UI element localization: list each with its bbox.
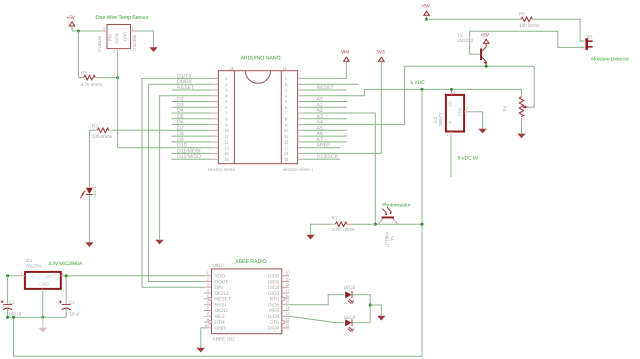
svg-text:T2: T2	[457, 33, 463, 39]
svg-text:8: 8	[225, 117, 228, 122]
wire LED3 right side	[353, 322, 371, 324]
wire JP1 pin2 to T2 base	[470, 31, 585, 54]
svg-text:GND: GND	[215, 326, 226, 332]
svg-text:GND: GND	[39, 282, 48, 287]
svg-text:XBEE-1B1: XBEE-1B1	[213, 337, 236, 343]
pin numbers XBee left	[204, 271, 209, 328]
wire +5V to R5	[427, 18, 521, 20]
diode LED3	[344, 315, 356, 332]
ground (IC3)	[478, 129, 486, 134]
svg-text:VO: VO	[448, 100, 453, 107]
svg-text:+5V: +5V	[67, 15, 76, 21]
svg-text:14: 14	[285, 305, 290, 310]
wire D10 to temp sensor DATA	[118, 147, 211, 149]
node junction emitter	[485, 65, 488, 68]
svg-text:12: 12	[224, 140, 229, 145]
svg-text:1: 1	[285, 76, 288, 81]
wire moisture sense node (T2 emitter to R4 wiper and A4)	[405, 66, 535, 107]
diode LED2	[344, 285, 356, 304]
svg-text:+5V: +5V	[481, 33, 490, 39]
wire VO to XBee VDD 3.3V rail	[65, 275, 204, 277]
wire D0/RX to XBee DOUT	[149, 84, 211, 281]
svg-text:DIO4: DIO4	[268, 326, 280, 332]
module U2 ARDUINO NANO (headers J1 J2 HEAD15-NOSS)	[208, 55, 314, 171]
wire DIO9 diagonal to LED3	[289, 316, 344, 323]
svg-text:100 uf: 100 uf	[8, 311, 22, 317]
wire R1 right to LDR node	[351, 223, 375, 225]
wire 5V pin4 to 5 VDC rail	[303, 89, 521, 95]
net labels right of J2	[317, 85, 339, 160]
svg-text:1: 1	[132, 26, 134, 30]
wire R5 to JP1 pin1	[532, 19, 584, 41]
svg-text:100 ohms: 100 ohms	[519, 23, 540, 29]
wire D8	[171, 135, 210, 137]
pins J1 stubs left	[211, 78, 219, 159]
svg-text:HEAD15-NOSS: HEAD15-NOSS	[208, 167, 236, 172]
wire RESET right	[303, 89, 346, 91]
svg-text:5 VDC: 5 VDC	[410, 80, 425, 86]
wire +5V branch down to R3	[78, 31, 83, 78]
ground (LED1)	[85, 242, 93, 247]
svg-text:2: 2	[466, 107, 468, 111]
wire photoresistor row	[375, 223, 422, 225]
svg-text:16: 16	[285, 294, 290, 299]
resistor R1	[331, 216, 355, 234]
ground (LEDs)	[377, 316, 385, 321]
wire A3	[303, 118, 347, 120]
transistor T2 2N2222	[457, 33, 487, 66]
svg-text:9: 9	[225, 122, 228, 127]
svg-text:1: 1	[207, 271, 210, 276]
pin bubbles RTS/CTS	[282, 297, 285, 300]
svg-text:U$12: U$12	[212, 263, 223, 269]
wire 3V3 to J2 pin14	[303, 61, 381, 153]
svg-text:7: 7	[285, 111, 288, 116]
svg-text:19: 19	[285, 276, 290, 281]
svg-text:4.7k ohms: 4.7k ohms	[81, 82, 103, 88]
wire XBee GND to ground	[201, 328, 204, 348]
svg-text:3: 3	[207, 282, 210, 287]
node junction LED ground tap	[369, 304, 372, 307]
wire IC3 GND to ground	[474, 112, 483, 129]
wire DIO5 to LED2	[289, 295, 344, 305]
svg-text:13: 13	[285, 311, 290, 316]
svg-text:3: 3	[285, 88, 288, 93]
svg-text:14: 14	[224, 151, 229, 156]
wire A6	[303, 135, 347, 137]
svg-text:IC1: IC1	[25, 258, 33, 264]
wire D11/MOSI	[171, 152, 210, 154]
wire A5	[303, 129, 347, 131]
pin numbers J2	[284, 76, 289, 162]
svg-text:6: 6	[225, 105, 228, 110]
wire IC1 GND pin down	[42, 292, 44, 317]
potentiometer R4	[503, 93, 528, 122]
svg-text:15: 15	[285, 300, 290, 305]
svg-text:7: 7	[207, 305, 210, 310]
capacitor C2	[1, 276, 22, 318]
wire D1/TX to XBee DIN	[142, 78, 211, 287]
svg-text:2N2222: 2N2222	[457, 38, 474, 44]
svg-text:R3: R3	[81, 71, 87, 77]
wire LED ground tap	[370, 305, 381, 316]
svg-text:LED1: LED1	[92, 186, 97, 198]
voltage regulator IC3 7805TV	[433, 89, 474, 136]
wire +5V to sensor PIO	[72, 30, 102, 32]
ground (J1 pin 4)	[155, 240, 163, 245]
svg-text:2: 2	[225, 82, 228, 87]
svg-text:1: 1	[446, 133, 448, 137]
svg-text:XBEE RADIO: XBEE RADIO	[235, 259, 266, 265]
wire D12/MISO	[171, 158, 210, 160]
node junction VO/C1	[65, 274, 68, 277]
ground (R1)	[306, 235, 314, 240]
wire AREF	[303, 147, 340, 149]
wire A7	[303, 141, 347, 143]
svg-text:3: 3	[453, 91, 455, 95]
svg-text:3: 3	[225, 88, 228, 93]
node junction +5V/R3 branch	[77, 30, 80, 33]
voltage regulator IC1 MIC2940A 3.3V	[17, 258, 83, 293]
svg-text:10: 10	[224, 128, 229, 133]
ground (XBee)	[197, 348, 205, 353]
wire 5VDC rail into R4 top	[521, 89, 523, 92]
net labels left of J1	[177, 73, 201, 160]
svg-text:VI: VI	[31, 274, 35, 279]
wire VI to C2	[8, 275, 17, 277]
node junction 5VDC/photoresistor column	[421, 88, 424, 91]
node junction VI/C2	[6, 274, 9, 277]
svg-text:15: 15	[284, 157, 289, 162]
svg-text:3: 3	[103, 27, 105, 31]
wire A1	[303, 106, 347, 108]
svg-text:4: 4	[225, 93, 228, 98]
svg-text:HEAD15-NOSS-1: HEAD15-NOSS-1	[283, 167, 314, 172]
svg-text:GND: GND	[122, 32, 127, 41]
wire GND pin2 right	[303, 83, 358, 85]
svg-text:7812TV: 7812TV	[25, 263, 42, 269]
svg-text:12: 12	[284, 140, 289, 145]
svg-text:3.3V MIC2940A: 3.3V MIC2940A	[48, 261, 83, 267]
wire D7 to R2	[113, 129, 211, 131]
svg-text:2: 2	[45, 289, 47, 293]
wire A0	[303, 101, 347, 103]
svg-text:12: 12	[285, 317, 290, 322]
node junction C2/ground row	[6, 316, 9, 319]
ground (IC1 faded)	[39, 317, 47, 332]
svg-text:20: 20	[285, 271, 290, 276]
svg-text:13: 13	[224, 145, 229, 150]
svg-text:Photoresistor: Photoresistor	[382, 202, 411, 208]
ground (sensor)	[149, 47, 157, 52]
wire R2 left to LED1	[89, 130, 97, 187]
wire DATA vertical	[117, 52, 119, 147]
svg-text:D18B20: D18B20	[97, 35, 102, 52]
svg-text:11: 11	[284, 134, 289, 139]
svg-text:One Wire Temp Sensor: One Wire Temp Sensor	[96, 15, 149, 21]
wire ground row C2/GND/C1	[8, 316, 67, 318]
svg-text:3V3: 3V3	[376, 49, 385, 55]
pin labels XBee left	[215, 274, 231, 332]
resistor R2	[92, 123, 113, 140]
svg-text:11: 11	[285, 323, 290, 328]
svg-text:9 VDC IN: 9 VDC IN	[457, 156, 478, 162]
svg-text:+5V: +5V	[422, 4, 431, 10]
svg-text:2: 2	[207, 276, 210, 281]
svg-text:LPT80A: LPT80A	[385, 232, 390, 248]
svg-text:R2: R2	[92, 123, 98, 129]
wire D13/SCK	[303, 158, 340, 160]
radio module U$12 XBEE-1B1	[212, 259, 282, 342]
svg-text:6: 6	[285, 105, 288, 110]
svg-text:R4: R4	[503, 105, 508, 111]
pin bubbles RESET/DTR	[209, 297, 212, 300]
node junction IC1 GND	[41, 316, 44, 319]
+5V supply symbol (top left)	[67, 15, 76, 31]
svg-text:ARDUINO NANO: ARDUINO NANO	[241, 55, 281, 61]
svg-text:4: 4	[285, 93, 288, 98]
svg-text:GND: GND	[457, 107, 462, 116]
wire R1 left to ground	[311, 224, 332, 234]
svg-text:VIN: VIN	[341, 49, 349, 55]
wire R3 to DATA line	[101, 77, 118, 79]
wire D5	[171, 118, 210, 120]
node junction LDR right	[421, 223, 424, 226]
svg-text:J1: J1	[229, 66, 234, 71]
svg-text:7805TV: 7805TV	[438, 112, 443, 127]
node junction +5V/R5	[425, 18, 428, 21]
supply VIN symbol	[341, 49, 349, 61]
svg-text:17: 17	[285, 288, 290, 293]
wire sensor GND to ground	[137, 31, 154, 47]
svg-text:15: 15	[224, 157, 229, 162]
svg-text:13: 13	[284, 145, 289, 150]
node junction rail riser	[12, 316, 15, 319]
node junction R3/DATA	[116, 76, 119, 79]
wire R4 bottom to ground	[521, 121, 523, 133]
wire D3	[171, 106, 210, 108]
svg-text:2: 2	[285, 82, 288, 87]
svg-text:5: 5	[285, 99, 288, 104]
pin numbers XBee right	[285, 271, 290, 328]
svg-text:VI: VI	[448, 121, 453, 125]
connector JP1 moisture probe	[581, 35, 629, 63]
svg-text:Moisture Detector: Moisture Detector	[591, 57, 629, 63]
svg-text:9: 9	[285, 122, 288, 127]
pins XBee right stubs	[282, 276, 289, 328]
supply 3V3 symbol	[376, 49, 385, 61]
resistor R3	[81, 71, 103, 88]
wire D4	[171, 112, 210, 114]
svg-text:DS2405: DS2405	[132, 34, 137, 51]
supply +5V symbol (top right)	[422, 4, 431, 20]
svg-text:1000 ohms: 1000 ohms	[332, 227, 356, 233]
wire 5V column down to photoresistor and bottom rail	[14, 89, 423, 356]
wire RESET stub left	[171, 89, 210, 91]
wire D9	[171, 141, 210, 143]
pins J2 stubs right	[298, 78, 304, 159]
svg-text:LED2: LED2	[344, 285, 356, 291]
wire LED1 to ground	[88, 195, 90, 242]
svg-text:14: 14	[284, 151, 289, 156]
pin labels XBee right	[268, 274, 280, 332]
svg-text:R1: R1	[332, 216, 338, 222]
resistor R5	[519, 12, 540, 29]
wire D6	[171, 124, 210, 126]
svg-text:J2: J2	[282, 66, 287, 71]
svg-text:DATA: DATA	[115, 33, 120, 44]
wire A2 to photoresistor node	[303, 113, 375, 224]
svg-text:1: 1	[21, 272, 23, 276]
svg-text:4: 4	[207, 288, 210, 293]
svg-text:330 ohms: 330 ohms	[92, 134, 113, 140]
supply +5V symbol (T2 collector)	[481, 33, 490, 44]
svg-text:PIO: PIO	[107, 33, 112, 41]
svg-text:10 uf: 10 uf	[69, 311, 80, 317]
wire IC3 VI input 9VDC	[450, 136, 452, 177]
wire GND pin4 to ground	[160, 96, 211, 240]
one-wire temp sensor U1 DS2405	[96, 15, 149, 54]
svg-text:7: 7	[225, 111, 228, 116]
svg-text:8: 8	[207, 311, 210, 316]
pins XBee left stubs	[204, 276, 212, 328]
capacitor C1	[59, 276, 80, 318]
node junction VO/5VDC rail	[450, 88, 453, 91]
wire LED2 right side	[353, 295, 371, 323]
svg-text:18: 18	[285, 282, 290, 287]
svg-text:11: 11	[224, 134, 229, 139]
svg-text:1: 1	[225, 76, 228, 81]
photoresistor T1 LPT80A	[378, 202, 411, 247]
ground (R4)	[517, 134, 525, 139]
svg-text:2: 2	[113, 50, 115, 54]
svg-text:10: 10	[204, 323, 209, 328]
wire D2	[171, 101, 210, 103]
svg-text:8: 8	[285, 117, 288, 122]
wire A4 to moisture sense node	[303, 66, 404, 124]
svg-text:3: 3	[62, 272, 64, 276]
svg-text:10: 10	[284, 128, 289, 133]
svg-text:1: 1	[581, 39, 583, 43]
diode LED1	[80, 186, 97, 199]
pin numbers J1	[224, 76, 229, 162]
node junction LDR left	[374, 223, 377, 226]
svg-text:VO: VO	[46, 274, 53, 279]
svg-text:5: 5	[225, 99, 228, 104]
svg-text:T1: T1	[390, 235, 395, 241]
wire VIN to J2 pin1	[303, 61, 346, 78]
